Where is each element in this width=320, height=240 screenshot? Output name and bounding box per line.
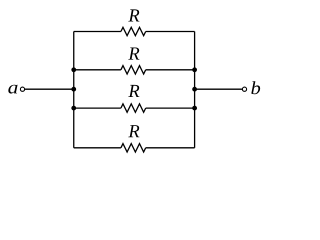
resistor R (branch 1 (top)) (121, 27, 146, 35)
wire: branch 3 left segment (74, 107, 121, 109)
node dot: left bus / terminal-a wire junction (71, 87, 76, 92)
wire: branch 1 (top) right segment (146, 31, 195, 33)
resistor R (branch 3) (121, 104, 146, 112)
wire: terminal a to left bus (25, 88, 74, 90)
resistor R (branch 2) (121, 66, 146, 74)
node dot: left bus / branch 3 junction (71, 106, 76, 111)
wire: branch 4 (bottom) right segment (146, 147, 195, 149)
node dot: right bus / branch 3 junction (192, 106, 197, 111)
terminal a (open circle) (20, 87, 24, 91)
value label R (branch 2) (128, 47, 139, 59)
wire: branch 2 right segment (146, 69, 195, 71)
wire: left bus (node a net) (73, 32, 75, 148)
wire: branch 2 left segment (74, 69, 121, 71)
value label R (branch 3) (128, 85, 139, 97)
wire: branch 4 (bottom) left segment (74, 147, 121, 149)
node label a (8, 85, 17, 94)
wire: right bus to terminal b (195, 88, 242, 90)
node dot: right bus / terminal-b wire junction (192, 87, 197, 92)
wire: branch 3 right segment (146, 107, 195, 109)
terminal b (open circle) (242, 87, 246, 91)
node dot: right bus / branch 2 junction (192, 67, 197, 72)
wire: branch 1 (top) left segment (74, 31, 121, 33)
wire: right bus (node b net) (194, 32, 196, 148)
resistor R (branch 4 (bottom)) (121, 144, 146, 152)
node label b (251, 81, 260, 94)
value label R (branch 1 (top)) (128, 9, 139, 21)
node dot: left bus / branch 2 junction (71, 67, 76, 72)
value label R (branch 4 (bottom)) (128, 125, 139, 137)
